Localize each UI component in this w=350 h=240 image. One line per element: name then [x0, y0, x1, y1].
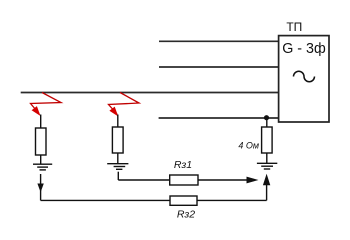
wire neutral to 4 Ом resistor [266, 118, 268, 127]
current arrow right [247, 177, 259, 184]
wire neutral [159, 117, 279, 119]
wire Rз1 to arrow [198, 179, 248, 181]
ground 1 [33, 164, 52, 170]
svg-text:4 Ом: 4 Ом [238, 141, 259, 151]
wire bottom to Rз2 [41, 199, 170, 201]
wire resistor2 to ground [117, 153, 119, 164]
AC sine symbol [294, 71, 315, 82]
current arrow down [37, 184, 43, 193]
ground 3 [257, 163, 277, 169]
wire to resistor Rз1 [118, 179, 169, 181]
wire phase 1 [159, 40, 279, 42]
lightning arrow fault 1 [31, 93, 62, 117]
wire phase 3 [21, 92, 279, 94]
wire ground2 stub down [117, 172, 119, 180]
wire Rз2 to corner [197, 199, 267, 201]
node neutral junction [264, 115, 269, 120]
wire 4 Ом to ground [266, 153, 268, 163]
current arrow up [263, 174, 270, 186]
resistor Rз1 [170, 175, 198, 185]
svg-text:G - 3ф: G - 3ф [282, 41, 326, 57]
wire down from ground 1 [40, 174, 42, 200]
ground 2 [107, 164, 128, 170]
earthing resistor 2 [112, 127, 123, 153]
svg-text:Rз1: Rз1 [174, 159, 192, 171]
wire up to ground node [266, 184, 268, 200]
earthing resistor 1 [36, 128, 47, 155]
resistor Rз2 [170, 196, 197, 205]
substation box ТП [279, 36, 329, 122]
wire lead fault1 to resistor [40, 115, 42, 129]
svg-text:Rз2: Rз2 [177, 209, 195, 221]
wire phase 2 [159, 66, 279, 68]
lightning arrow fault 2 [109, 93, 140, 117]
wire resistor1 to ground [40, 155, 42, 164]
svg-text:ТП: ТП [286, 20, 302, 34]
wire lead fault2 to resistor [117, 115, 119, 128]
resistor 4 Ом [262, 127, 273, 153]
